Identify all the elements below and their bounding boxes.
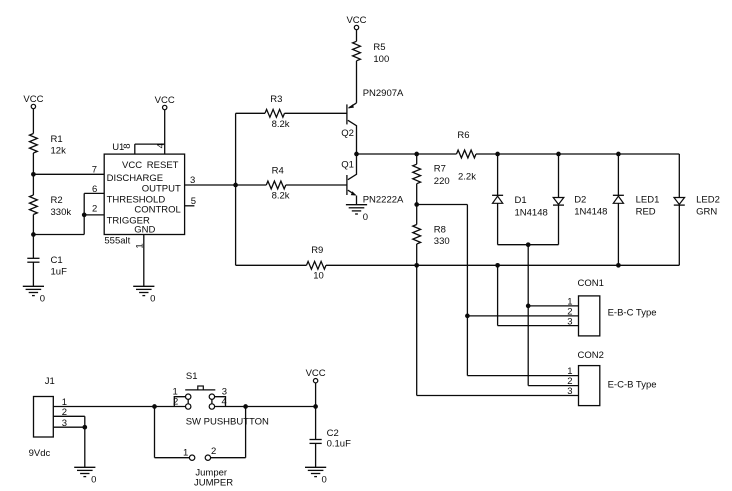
junction D link / CON1 pin1	[526, 242, 531, 247]
svg-text:0: 0	[91, 475, 96, 486]
wire rail to CON1 pin 3	[497, 265, 499, 325]
ground (C2)	[305, 467, 327, 485]
junction J1/S1/jumper	[152, 404, 157, 409]
wire U1 pin 3 OUTPUT	[185, 184, 236, 186]
wire U1 pin 4 VCC riser	[164, 110, 166, 154]
S1 pin 4 circle	[209, 404, 214, 409]
svg-text:JUMPER: JUMPER	[194, 478, 233, 489]
wire pin8 to VCC riser	[135, 143, 165, 145]
svg-text:D2: D2	[574, 195, 586, 206]
svg-text:10: 10	[313, 270, 324, 281]
wire Q1 emitter to ground	[356, 196, 358, 205]
wire C1 to ground	[32, 262, 34, 286]
wire top rail to D1	[497, 154, 499, 195]
op-amp U1 555 timer body	[104, 154, 184, 234]
svg-text:R1: R1	[51, 134, 63, 145]
svg-text:5: 5	[191, 196, 196, 207]
junction LED1 top	[616, 152, 621, 157]
ground (U1)	[133, 286, 155, 304]
junction jumper/S1 net	[243, 404, 248, 409]
wire R4 to Q1 base	[286, 184, 347, 186]
svg-text:CON1: CON1	[578, 278, 604, 289]
power symbol VCC (C2)	[306, 368, 326, 383]
svg-text:R3: R3	[270, 94, 282, 105]
wire node to C1	[32, 235, 34, 259]
svg-text:3: 3	[567, 386, 572, 397]
wire CON2 pin 3	[417, 395, 579, 397]
wire node to U1 pin 7	[33, 173, 104, 175]
LED2	[674, 198, 685, 206]
LED1	[613, 195, 624, 203]
wire down to jumper pin 1	[154, 407, 156, 458]
wire R7 to node	[416, 184, 418, 205]
svg-text:Q1: Q1	[341, 159, 354, 170]
svg-text:LED2: LED2	[696, 195, 720, 206]
connector CON2 body	[579, 366, 600, 406]
junction R7/R8	[414, 202, 419, 207]
svg-text:6: 6	[92, 184, 97, 195]
svg-text:R4: R4	[272, 165, 284, 176]
connector CON1 body	[579, 296, 600, 336]
svg-text:12k: 12k	[51, 146, 67, 157]
wire trigger link vertical	[83, 215, 85, 235]
wire to U1 pin 2	[84, 214, 104, 216]
wire to jumper pin 1	[155, 457, 190, 459]
connector J1 body	[34, 397, 54, 438]
svg-text:2: 2	[173, 396, 178, 407]
svg-text:VCC: VCC	[23, 94, 43, 105]
svg-text:R2: R2	[51, 195, 63, 206]
svg-text:J1: J1	[45, 376, 55, 387]
svg-text:2: 2	[211, 446, 216, 457]
wire top rail to D2	[558, 154, 560, 198]
svg-text:Q2: Q2	[341, 128, 354, 139]
svg-text:3: 3	[62, 418, 67, 429]
power symbol VCC (U1)	[155, 95, 175, 110]
svg-text:C1: C1	[51, 255, 63, 266]
svg-text:3: 3	[190, 175, 195, 186]
wire top rail to LED1	[617, 154, 619, 195]
svg-text:0: 0	[150, 294, 155, 305]
wire node down to C2	[315, 407, 317, 440]
svg-text:330: 330	[434, 236, 450, 247]
svg-text:OUTPUT: OUTPUT	[142, 183, 181, 194]
ground (J1)	[74, 467, 96, 485]
svg-text:2: 2	[92, 204, 97, 215]
switch S1 SW PUSHBUTTON	[174, 386, 225, 407]
wire trigger link horizontal	[33, 234, 84, 236]
wire VCC to R1	[32, 109, 34, 134]
power symbol VCC (R1 top)	[23, 94, 43, 109]
svg-text:0: 0	[322, 475, 327, 486]
svg-text:4: 4	[222, 396, 227, 407]
wire D2 to link	[558, 205, 560, 245]
wire output node down to R9 line	[235, 185, 237, 265]
wire U1 pin 5 stub	[185, 205, 195, 207]
S1 pin 1 circle	[186, 394, 191, 399]
junction J1 pin3/ground riser	[82, 425, 87, 430]
wire D1 to link	[497, 203, 499, 244]
wire output node to R4	[236, 184, 267, 186]
wire J1 pin 2	[53, 415, 85, 417]
svg-text:GRN: GRN	[696, 207, 717, 218]
resistor R6	[457, 150, 477, 158]
diode D1 1N4148	[492, 195, 503, 203]
wire LED1 to bottom rail	[617, 203, 619, 265]
ground (C1)	[23, 286, 45, 304]
svg-text:8.2k: 8.2k	[272, 119, 290, 130]
junction R7 top	[414, 152, 419, 157]
wire to R9	[236, 264, 307, 266]
jumper pin 1 circle	[189, 455, 194, 460]
junction CON1 pin2 / CON2 pin1	[465, 314, 470, 319]
svg-text:2: 2	[62, 407, 67, 418]
ground (Q1)	[346, 205, 368, 223]
svg-text:S1: S1	[186, 371, 198, 382]
svg-text:VCC: VCC	[346, 15, 366, 26]
junction output node	[233, 183, 238, 188]
wire S1 pin 4 to VCC node	[215, 406, 316, 408]
wire J1 pins 2/3 to ground	[84, 416, 86, 467]
resistor R8	[413, 225, 421, 245]
wire bottom rail	[417, 264, 680, 266]
svg-text:555alt: 555alt	[104, 235, 130, 246]
wire CON1 pin 3	[498, 325, 579, 327]
diode D2 1N4148	[553, 198, 564, 206]
svg-text:1N4148: 1N4148	[574, 207, 607, 218]
wire R6 to LED2 top rail	[476, 153, 679, 155]
svg-text:E-C-B Type: E-C-B Type	[608, 380, 657, 391]
svg-text:LED1: LED1	[636, 195, 660, 206]
svg-text:CON2: CON2	[578, 350, 604, 361]
svg-text:R7: R7	[434, 164, 446, 175]
wire R2 to node TRIG	[32, 215, 34, 235]
wire CON2 pin 2	[528, 385, 578, 387]
wire to R7	[416, 154, 418, 164]
svg-text:R8: R8	[434, 224, 446, 235]
wire node up to VCC	[315, 383, 317, 407]
transistor Q1 PN2222A	[347, 154, 357, 196]
svg-text:PN2907A: PN2907A	[363, 88, 404, 99]
wire D1-D2 link	[498, 244, 559, 246]
svg-text:100: 100	[373, 54, 389, 65]
capacitor C2	[310, 440, 322, 444]
svg-text:220: 220	[434, 176, 450, 187]
svg-text:VCC: VCC	[306, 368, 326, 379]
svg-text:SW PUSHBUTTON: SW PUSHBUTTON	[186, 416, 269, 427]
jumper pin 2 circle	[205, 455, 210, 460]
svg-text:R9: R9	[311, 245, 323, 256]
svg-text:D1: D1	[515, 195, 527, 206]
wire to R3	[236, 112, 265, 114]
wire rail to CON2 pin 3	[416, 265, 418, 395]
resistor R5	[353, 41, 361, 61]
svg-text:R6: R6	[457, 130, 469, 141]
wire J1 pin 3	[53, 426, 85, 428]
wire riser to S1 net	[245, 407, 247, 458]
wire pin2 to pin6	[83, 193, 85, 215]
svg-text:1N4148: 1N4148	[515, 207, 548, 218]
svg-text:9Vdc: 9Vdc	[29, 448, 51, 459]
svg-text:RESET: RESET	[147, 160, 179, 171]
transistor Q2 PN2907A	[347, 103, 357, 154]
wire J1 pin 1 to S1 net	[53, 406, 154, 408]
S1 pin 2 circle	[186, 404, 191, 409]
resistor R1	[30, 134, 38, 154]
svg-text:GND: GND	[134, 225, 155, 236]
wire node to R8	[416, 205, 418, 225]
svg-text:VCC: VCC	[122, 160, 142, 171]
resistor R7	[413, 164, 421, 184]
resistor R9	[307, 261, 327, 269]
svg-text:0: 0	[363, 212, 368, 223]
junction LED1 bottom	[616, 263, 621, 268]
wire U1 pin 8 stub	[134, 144, 136, 154]
wire down to CON2 pin 1	[466, 316, 468, 376]
wire R3 to Q2 base	[285, 112, 347, 114]
svg-text:1: 1	[135, 243, 146, 248]
wire jumper pin 2 to riser	[211, 457, 246, 459]
power symbol VCC (R5)	[346, 15, 366, 30]
wire node to R2	[32, 174, 34, 195]
svg-text:0.1uF: 0.1uF	[327, 438, 351, 449]
wire R1 to node DIS	[32, 153, 34, 174]
svg-text:PN2222A: PN2222A	[363, 195, 404, 206]
svg-text:8: 8	[122, 143, 133, 148]
junction Q1/Q2 collectors	[354, 152, 359, 157]
junction D1 top	[495, 152, 500, 157]
svg-text:2.2k: 2.2k	[458, 171, 476, 182]
wire S1 net to S1 pin 2	[155, 406, 186, 408]
junction D2 top	[556, 152, 561, 157]
svg-text:3: 3	[567, 316, 572, 327]
wire C2 to ground	[315, 443, 317, 467]
wire riser to CON1 pin 2	[466, 205, 468, 316]
wire U1 pin 1 GND	[143, 235, 145, 287]
wire CON2 pin 1	[467, 375, 578, 377]
wire VCC to R5	[356, 30, 358, 42]
wire LED2 to bottom rail	[678, 205, 680, 265]
svg-text:7: 7	[92, 164, 97, 175]
wire down to CON2 pin 2	[527, 306, 529, 386]
svg-text:RED: RED	[636, 207, 656, 218]
svg-text:VCC: VCC	[155, 95, 175, 106]
resistor R4	[266, 181, 286, 189]
svg-text:330k: 330k	[51, 207, 72, 218]
capacitor C1	[27, 258, 39, 262]
svg-text:1: 1	[183, 447, 188, 458]
junction trigger/threshold	[82, 213, 87, 218]
resistor R2	[30, 195, 38, 215]
S1 pin 3 circle	[209, 394, 214, 399]
wire R8 to bottom rail	[416, 244, 418, 265]
wire top rail corner to LED2	[678, 154, 680, 198]
wire D link to CON1 pin 1	[527, 245, 529, 306]
svg-text:1uF: 1uF	[51, 267, 68, 278]
junction R2/C1/trigger	[31, 232, 36, 237]
junction R8/R9/CON2 rail	[414, 263, 419, 268]
wire CON1 pin 2	[467, 315, 578, 317]
svg-text:C2: C2	[327, 428, 339, 439]
wire to U1 pin 6	[84, 192, 104, 194]
wire R5 to Q2 emitter	[356, 61, 358, 103]
wire R7 node to CON riser	[417, 204, 468, 206]
svg-text:R5: R5	[373, 42, 385, 53]
junction CON1 pin3 tap	[495, 263, 500, 268]
svg-text:CONTROL: CONTROL	[134, 204, 180, 215]
svg-text:8.2k: 8.2k	[272, 191, 290, 202]
junction R1/R2/pin7	[31, 172, 36, 177]
svg-text:E-B-C Type: E-B-C Type	[608, 307, 657, 318]
wire R9 to R8 bottom node	[326, 264, 417, 266]
wire output node up to R3	[235, 113, 237, 185]
junction CON1 pin1 / CON2 pin2	[526, 304, 531, 309]
wire CON1 pin 1	[528, 305, 578, 307]
junction VCC/C2	[313, 404, 318, 409]
resistor R3	[265, 109, 285, 117]
wire collectors to R6	[357, 153, 457, 155]
svg-text:0: 0	[40, 294, 45, 305]
